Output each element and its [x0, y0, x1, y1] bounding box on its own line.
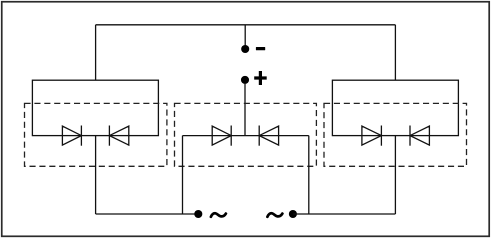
module M2 dashed enclosure (middle): [175, 103, 317, 166]
wire: right module top tap: [394, 25, 396, 80]
node: positive DC terminal dot: [241, 76, 249, 84]
module M1 outline (left solid box): [32, 80, 158, 135]
diode D2 (left module, right, pointing left): [109, 126, 128, 146]
wire: positive terminal drop to middle rail: [244, 83, 246, 136]
node: negative DC terminal dot: [241, 45, 249, 53]
wire: middle module right leg: [308, 136, 310, 214]
wire: right module bottom tap: [394, 136, 396, 214]
wire: left module top tap: [95, 25, 97, 80]
diode D1 (left module, left, pointing right): [62, 126, 81, 146]
diode D3 (middle module, left, pointing right): [212, 126, 231, 146]
diode D5 (right module, left, pointing right): [362, 126, 382, 146]
wire: middle module left leg: [182, 136, 184, 214]
module M1 dashed enclosure: [25, 103, 167, 166]
node: left AC terminal dot: [194, 210, 202, 218]
label: right AC tilde: [267, 213, 282, 217]
wire: bottom right AC rail: [293, 213, 396, 215]
diode D4 (middle module, right, pointing left): [259, 126, 278, 146]
node: right AC terminal dot: [289, 210, 297, 218]
label: plus sign: [254, 71, 267, 85]
label: minus sign: [256, 47, 265, 50]
wire: top DC rail: [96, 24, 396, 26]
diode D6 (right module, right, pointing left): [410, 126, 429, 146]
wire: negative terminal drop: [244, 25, 246, 46]
label: left AC tilde: [211, 213, 226, 217]
wire: middle module rail: [183, 135, 309, 137]
module M3 dashed enclosure: [324, 103, 467, 166]
wire: bottom left AC rail: [96, 213, 199, 215]
wire: left module bottom tap: [95, 136, 97, 214]
module M3 outline (right solid box): [332, 80, 458, 135]
